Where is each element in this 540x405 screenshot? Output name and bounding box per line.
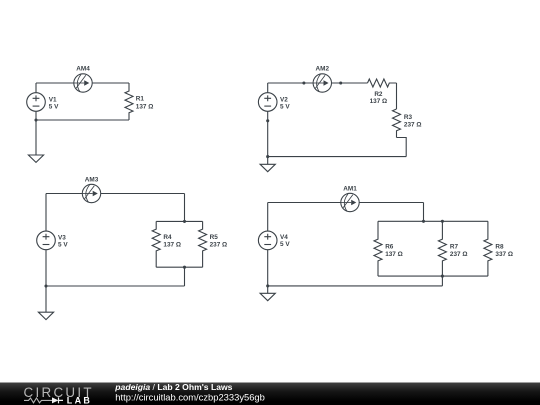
svg-text:LAB: LAB (67, 396, 92, 405)
voltage source V2 (258, 93, 277, 112)
svg-text:R6: R6 (385, 243, 394, 250)
svg-text:137 Ω: 137 Ω (163, 241, 181, 248)
wire ground stem circuit3 (45, 286, 47, 312)
svg-text:R1: R1 (136, 95, 145, 102)
svg-text:R8: R8 (495, 243, 504, 250)
wire ground stem circuit2 (267, 157, 269, 165)
resistor R7 (438, 221, 446, 276)
voltage source V4 (258, 231, 277, 250)
junction bottom circuit4 (266, 284, 269, 287)
junction R7 bottom (441, 275, 444, 278)
wire feed circuit3 (184, 194, 186, 222)
ammeter AM3 (82, 184, 100, 202)
wire bottom circuit4 (268, 285, 443, 287)
svg-text:V1: V1 (49, 97, 57, 104)
wire drop circuit4 (441, 276, 443, 286)
wire ground stem circuit4 (267, 286, 269, 293)
svg-text:AM4: AM4 (76, 66, 90, 73)
wire top circuit2 (268, 82, 368, 84)
voltage source V3 (37, 231, 56, 250)
wire left circuit2 (267, 83, 269, 157)
wire top bus circuit4 (378, 220, 488, 222)
wire left circuit3 (45, 194, 47, 287)
logo resistor squiggle (24, 398, 52, 403)
junction ammeter left terminal (302, 81, 305, 84)
svg-text:V3: V3 (58, 234, 66, 241)
svg-text:337 Ω: 337 Ω (495, 251, 513, 258)
svg-text:R3: R3 (404, 114, 413, 121)
ground circuit2 (260, 164, 275, 171)
wire bottom bus circuit3 (156, 266, 202, 268)
wire top bus circuit3 (156, 220, 202, 222)
resistor R8 (484, 221, 492, 276)
resistor R3 (393, 109, 401, 138)
svg-text:5 V: 5 V (280, 104, 290, 111)
svg-text:237 Ω: 237 Ω (404, 122, 422, 129)
svg-text:137 Ω: 137 Ω (385, 251, 403, 258)
svg-text:V2: V2 (280, 97, 288, 104)
junction R7 top (441, 220, 444, 223)
wire bottom circuit3 (46, 285, 185, 287)
svg-text:AM1: AM1 (343, 186, 357, 193)
ammeter AM2 (313, 74, 331, 92)
wire left circuit4 (267, 203, 269, 286)
junction bottom circuit2 (266, 155, 269, 158)
junction feed circuit4 (422, 220, 425, 223)
svg-text:R7: R7 (450, 243, 459, 250)
wire left circuit1 (35, 83, 37, 120)
svg-text:137 Ω: 137 Ω (370, 98, 388, 105)
wire top circuit3 (46, 193, 185, 195)
svg-text:237 Ω: 237 Ω (450, 251, 468, 258)
voltage source V1 (27, 93, 46, 112)
junction ammeter right terminal (339, 81, 342, 84)
ammeter AM1 (341, 193, 359, 211)
svg-text:R4: R4 (163, 234, 172, 241)
resistor R4 (152, 221, 160, 267)
wire jog circuit2 (397, 138, 407, 157)
svg-text:AM2: AM2 (316, 66, 330, 73)
svg-text:5 V: 5 V (280, 241, 290, 248)
svg-text:V4: V4 (280, 234, 288, 241)
junction V2 bottom terminal (266, 119, 269, 122)
resistor R2 (368, 79, 397, 87)
wire ground stem circuit1 (35, 120, 37, 155)
junction node circuit1 (34, 118, 37, 121)
junction bottom circuit3 (44, 284, 47, 287)
wire bottom circuit2 (268, 156, 407, 158)
wire bottom circuit1 (36, 119, 129, 121)
wire right circuit2 (396, 83, 398, 109)
junction bottom bus circuit3 (183, 266, 186, 269)
svg-text:137 Ω: 137 Ω (136, 103, 154, 110)
resistor R5 (199, 221, 207, 267)
svg-text:237 Ω: 237 Ω (210, 241, 228, 248)
ammeter AM4 (74, 74, 92, 92)
wire top circuit1 (36, 82, 129, 84)
svg-text:5 V: 5 V (58, 241, 68, 248)
logo diode (52, 397, 59, 403)
ground circuit3 (38, 312, 53, 319)
svg-text:5 V: 5 V (49, 104, 59, 111)
resistor R1 (125, 83, 133, 120)
wire drop circuit3 (184, 267, 186, 286)
svg-text:R2: R2 (374, 91, 383, 98)
junction top bus circuit3 (183, 220, 186, 223)
svg-text:R5: R5 (210, 234, 219, 241)
ground circuit1 (28, 155, 43, 162)
wire feed circuit4 (423, 203, 425, 222)
ground circuit4 (260, 293, 275, 300)
svg-text:AM3: AM3 (85, 177, 99, 184)
resistor R6 (374, 221, 382, 276)
wire bottom bus circuit4 (378, 275, 488, 277)
wire top circuit4 (268, 202, 424, 204)
svg-text:http://circuitlab.com/czbp2333: http://circuitlab.com/czbp2333y56gb (115, 391, 265, 402)
